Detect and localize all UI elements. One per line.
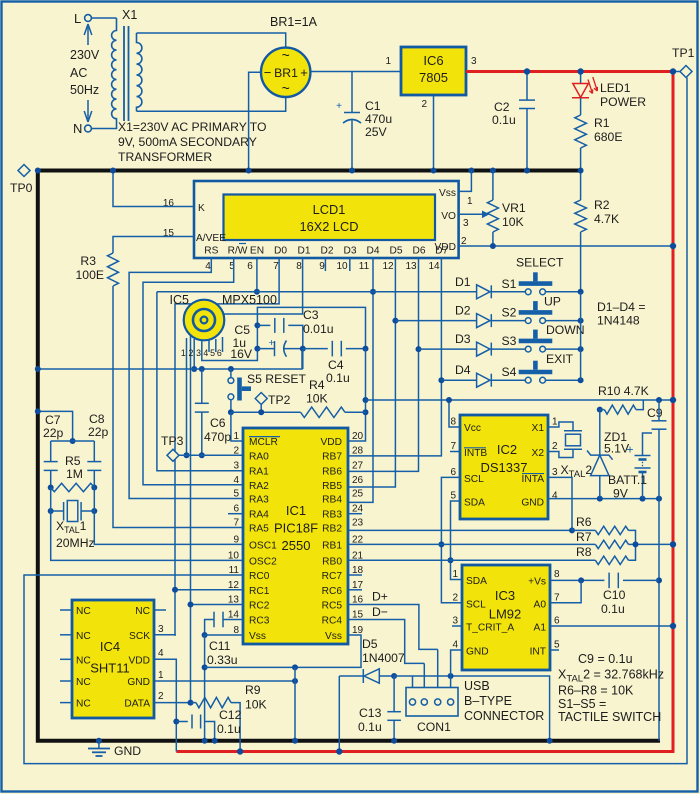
svg-text:S5 RESET: S5 RESET bbox=[247, 372, 306, 386]
svg-text:D1: D1 bbox=[297, 246, 310, 257]
svg-text:C1: C1 bbox=[365, 99, 381, 113]
svg-text:BR1=1A: BR1=1A bbox=[270, 15, 318, 29]
svg-text:3: 3 bbox=[463, 218, 469, 229]
svg-text:D3: D3 bbox=[455, 332, 471, 346]
svg-text:POWER: POWER bbox=[600, 95, 646, 109]
svg-text:2: 2 bbox=[233, 445, 239, 456]
svg-text:RB1: RB1 bbox=[322, 540, 342, 551]
svg-text:RC7: RC7 bbox=[322, 571, 343, 582]
ground symbol bbox=[96, 738, 102, 744]
MCLR reset row bbox=[231, 411, 301, 413]
wire IC2 SDA to bus bbox=[451, 501, 463, 580]
svg-text:C4: C4 bbox=[328, 358, 344, 372]
svg-text:SDA: SDA bbox=[464, 498, 485, 509]
bridge rectifier BR1 bbox=[261, 48, 310, 97]
svg-text:1: 1 bbox=[452, 569, 458, 580]
svg-text:D4: D4 bbox=[366, 246, 379, 257]
svg-text:4: 4 bbox=[233, 475, 239, 486]
svg-text:R6: R6 bbox=[576, 515, 592, 529]
USB pin stubs bbox=[412, 676, 414, 688]
svg-text:6: 6 bbox=[554, 616, 560, 627]
svg-text:2: 2 bbox=[421, 99, 427, 110]
svg-text:+: + bbox=[626, 443, 633, 457]
RC1 wire to D0 column bbox=[175, 589, 243, 591]
wire IC4 GND to ground drop bbox=[154, 680, 295, 682]
svg-text:22p: 22p bbox=[43, 426, 64, 440]
arrow down (neutral) bbox=[87, 100, 89, 119]
crystal XTAL2 32.768kHz bbox=[548, 422, 573, 431]
svg-text:D2: D2 bbox=[455, 304, 471, 318]
capacitor C13 0.1u bbox=[393, 676, 395, 712]
svg-text:RA1: RA1 bbox=[249, 467, 269, 478]
svg-text:7: 7 bbox=[450, 441, 456, 452]
svg-text:D7: D7 bbox=[435, 246, 448, 257]
wire BR1 plus to IC6 bbox=[310, 71, 401, 73]
svg-text:R/W: R/W bbox=[228, 246, 248, 257]
svg-text:DATA: DATA bbox=[124, 699, 150, 710]
svg-text:+: + bbox=[269, 338, 275, 349]
svg-text:4: 4 bbox=[452, 640, 458, 651]
svg-text:470p: 470p bbox=[204, 430, 231, 444]
svg-text:INT: INT bbox=[530, 647, 546, 658]
svg-text:+: + bbox=[300, 65, 308, 80]
wire D7(14) down to button row4 and RB7 bbox=[348, 258, 441, 456]
common button column to R2 bbox=[580, 292, 582, 380]
junction dots on top ground bus bbox=[246, 168, 252, 174]
svg-text:0.33u: 0.33u bbox=[207, 653, 238, 667]
svg-text:C2: C2 bbox=[494, 100, 510, 114]
svg-text:3: 3 bbox=[471, 56, 477, 67]
capacitor C4 0.1u bbox=[303, 348, 328, 350]
svg-text:BATT.1: BATT.1 bbox=[608, 473, 647, 487]
svg-text:A/VEE: A/VEE bbox=[196, 233, 226, 244]
svg-text:D−: D− bbox=[372, 605, 388, 619]
svg-text:R6–R8 = 10K: R6–R8 = 10K bbox=[558, 684, 634, 698]
red +5V rail (top) bbox=[466, 70, 673, 73]
svg-text:LED1: LED1 bbox=[600, 81, 631, 95]
PIC RA4 stub bbox=[228, 513, 243, 515]
svg-text:X2: X2 bbox=[532, 448, 545, 459]
svg-text:R8: R8 bbox=[576, 545, 592, 559]
svg-text:4: 4 bbox=[203, 348, 208, 358]
svg-text:B–TYPE: B–TYPE bbox=[464, 694, 512, 708]
test point TP2 bbox=[255, 393, 267, 405]
svg-text:S1: S1 bbox=[502, 277, 517, 291]
svg-text:IC2: IC2 bbox=[497, 442, 517, 457]
svg-text:SCL: SCL bbox=[466, 599, 486, 610]
svg-text:IC1: IC1 bbox=[286, 503, 306, 518]
ground row under sensor bbox=[38, 349, 302, 369]
wire button row1 down to RA1 bbox=[157, 292, 243, 471]
svg-text:RC2: RC2 bbox=[249, 601, 270, 612]
svg-text:D3: D3 bbox=[343, 246, 356, 257]
svg-text:A0: A0 bbox=[534, 599, 547, 610]
IC4 NC right stub bbox=[154, 609, 166, 611]
RC2 wire to D1 column bbox=[191, 604, 244, 606]
node from ground bus to C7/C8 bbox=[38, 411, 73, 441]
svg-text:MPX5100: MPX5100 bbox=[222, 293, 277, 307]
wire leg2 to ground row bbox=[193, 339, 195, 369]
svg-text:USB: USB bbox=[464, 679, 490, 693]
resistor R4 10K bbox=[301, 407, 345, 417]
svg-text:0.1u: 0.1u bbox=[492, 113, 516, 127]
IC2 GND / backup ground line bbox=[547, 498, 549, 500]
svg-text:TP2: TP2 bbox=[268, 393, 291, 407]
wire IC3 GND to USB pin4 bbox=[451, 650, 462, 676]
svg-text:14: 14 bbox=[428, 261, 440, 272]
svg-text:2: 2 bbox=[189, 348, 194, 358]
capacitor C3 0.01u bbox=[257, 324, 270, 326]
svg-text:2: 2 bbox=[552, 441, 558, 452]
resistor R2 4.7K bbox=[580, 171, 582, 201]
svg-text:Vss: Vss bbox=[249, 631, 266, 642]
svg-text:0.1u: 0.1u bbox=[601, 602, 625, 616]
svg-text:2: 2 bbox=[452, 592, 458, 603]
svg-text:0.1u: 0.1u bbox=[358, 720, 382, 734]
wire leg3 to C5 left node bbox=[202, 340, 258, 361]
svg-text:NC: NC bbox=[76, 631, 91, 642]
svg-text:16X2 LCD: 16X2 LCD bbox=[299, 219, 358, 234]
svg-text:26: 26 bbox=[352, 475, 364, 486]
svg-text:1: 1 bbox=[181, 348, 186, 358]
svg-text:RA5: RA5 bbox=[249, 524, 269, 535]
svg-text:C13: C13 bbox=[359, 706, 382, 720]
junction dots on +5V top rail bbox=[524, 68, 530, 74]
wire BR1 minus to ground bus bbox=[249, 72, 261, 170]
svg-text:0.01u: 0.01u bbox=[303, 322, 334, 336]
svg-text:3: 3 bbox=[452, 616, 458, 627]
wire IC2 SCL to bus bbox=[441, 477, 462, 602]
svg-text:INTA: INTA bbox=[522, 474, 545, 485]
svg-text:4: 4 bbox=[158, 648, 164, 659]
svg-text:2: 2 bbox=[158, 691, 164, 702]
svg-text:Vss: Vss bbox=[325, 631, 342, 642]
humidity sensor IC4 SHT11 bbox=[72, 600, 154, 718]
svg-text:D1: D1 bbox=[455, 275, 471, 289]
VBUS line to IC3 ground corner bbox=[391, 673, 397, 679]
svg-text:VR1: VR1 bbox=[502, 201, 526, 215]
svg-text:R2: R2 bbox=[594, 198, 610, 212]
+5V VDD line from LCD pin2 to red rail bbox=[459, 245, 673, 247]
svg-text:470u: 470u bbox=[365, 112, 392, 126]
svg-text:7: 7 bbox=[273, 261, 279, 272]
wire D5 to +5V red line bbox=[338, 676, 340, 752]
svg-text:RA0: RA0 bbox=[249, 451, 269, 462]
red +5V rail bottom bbox=[176, 750, 674, 753]
svg-text:3: 3 bbox=[196, 348, 201, 358]
wire EN(6) joins button row 1 bbox=[256, 258, 258, 292]
svg-text:R1: R1 bbox=[594, 116, 610, 130]
svg-text:15: 15 bbox=[163, 228, 175, 239]
svg-text:CON1: CON1 bbox=[417, 720, 451, 734]
svg-text:L: L bbox=[74, 11, 81, 26]
svg-text:4: 4 bbox=[552, 491, 558, 502]
wire K to ground bus bbox=[113, 171, 194, 207]
svg-text:1: 1 bbox=[552, 417, 558, 428]
svg-text:IC6: IC6 bbox=[423, 53, 443, 68]
svg-text:RB2: RB2 bbox=[322, 524, 342, 535]
LCD1 screen bbox=[224, 195, 436, 241]
svg-text:C11: C11 bbox=[209, 639, 231, 653]
svg-text:8: 8 bbox=[450, 417, 456, 428]
svg-text:3: 3 bbox=[158, 624, 164, 635]
svg-text:RB0: RB0 bbox=[322, 556, 342, 567]
IC3 INT stub bbox=[550, 649, 559, 651]
svg-text:8: 8 bbox=[554, 569, 560, 580]
svg-text:230V: 230V bbox=[70, 48, 100, 62]
svg-text:5: 5 bbox=[450, 491, 456, 502]
svg-text:D2: D2 bbox=[320, 246, 333, 257]
wire IC4 VDD to +5V red line bbox=[154, 659, 176, 751]
svg-text:NC: NC bbox=[76, 655, 91, 666]
svg-text:SELECT: SELECT bbox=[516, 255, 564, 269]
+5V line to red rail bbox=[366, 399, 674, 401]
svg-text:10: 10 bbox=[228, 550, 240, 561]
svg-text:1M: 1M bbox=[66, 467, 83, 481]
svg-text:16: 16 bbox=[163, 198, 175, 209]
svg-text:C9 = 0.1u: C9 = 0.1u bbox=[578, 652, 633, 666]
svg-text:R7: R7 bbox=[576, 530, 592, 544]
svg-text:R5: R5 bbox=[65, 454, 81, 468]
switch S5 RESET bbox=[230, 369, 232, 378]
svg-text:EN: EN bbox=[250, 246, 264, 257]
svg-text:20: 20 bbox=[352, 431, 364, 442]
svg-text:0.1u: 0.1u bbox=[326, 371, 350, 385]
svg-text:TRANSFORMER: TRANSFORMER bbox=[118, 150, 212, 164]
resistor R9 10K bbox=[191, 702, 197, 704]
svg-text:C8: C8 bbox=[89, 412, 105, 426]
svg-text:5: 5 bbox=[233, 489, 239, 500]
svg-text:25: 25 bbox=[352, 489, 364, 500]
RB0 wire (SDA net) bbox=[348, 559, 451, 561]
wire IC6 pin2 to ground bus bbox=[433, 95, 435, 171]
T_CRIT_A stub bbox=[452, 625, 462, 627]
wire XTAL1/C7 to OSC2 bbox=[51, 511, 243, 560]
svg-text:NC: NC bbox=[76, 606, 91, 617]
svg-text:DS1337: DS1337 bbox=[481, 460, 528, 475]
wire leg1 (Vout) to RA0 row bbox=[186, 338, 188, 455]
stub D3(10) bbox=[349, 258, 351, 271]
svg-text:R9: R9 bbox=[245, 683, 261, 697]
svg-text:K: K bbox=[198, 203, 205, 214]
svg-text:RB7: RB7 bbox=[322, 451, 342, 462]
svg-text:5: 5 bbox=[210, 348, 215, 358]
svg-text:CONNECTOR: CONNECTOR bbox=[464, 709, 544, 723]
svg-text:6: 6 bbox=[217, 348, 222, 358]
svg-text:27: 27 bbox=[352, 461, 364, 472]
svg-text:TP1: TP1 bbox=[672, 46, 695, 60]
wire IC3 A0 to +Vs line bbox=[550, 580, 581, 602]
svg-text:RA4: RA4 bbox=[249, 510, 269, 521]
wire to MCLR pin1 bbox=[231, 412, 243, 441]
svg-text:LM92: LM92 bbox=[489, 607, 522, 622]
svg-text:6: 6 bbox=[247, 261, 253, 272]
svg-text:680E: 680E bbox=[594, 130, 622, 144]
resistor R1 680E bbox=[580, 98, 582, 115]
svg-text:D1–D4 =: D1–D4 = bbox=[597, 300, 645, 314]
test point TP0 bbox=[18, 165, 30, 177]
svg-text:RC6: RC6 bbox=[322, 586, 343, 597]
svg-text:VO: VO bbox=[441, 211, 456, 222]
svg-text:7805: 7805 bbox=[419, 70, 448, 85]
svg-text:Vcc: Vcc bbox=[464, 423, 481, 434]
svg-text:GND: GND bbox=[127, 677, 150, 688]
svg-text:50Hz: 50Hz bbox=[70, 83, 99, 97]
Vss pin8 wire down to ground bbox=[205, 635, 243, 741]
wire D1(8) down-left to RC2/DATA column bbox=[191, 258, 303, 703]
svg-text:16V: 16V bbox=[230, 347, 253, 361]
svg-text:TACTILE SWITCH: TACTILE SWITCH bbox=[558, 710, 661, 724]
svg-text:MCLR: MCLR bbox=[249, 437, 278, 448]
svg-text:11: 11 bbox=[359, 261, 370, 272]
diode D2 1N4148 bbox=[395, 320, 476, 322]
svg-text:12: 12 bbox=[382, 261, 394, 272]
svg-text:TP3: TP3 bbox=[161, 434, 184, 448]
svg-text:INTB: INTB bbox=[464, 448, 487, 459]
PIC RC7 stub bbox=[348, 574, 362, 576]
svg-text:9V, 500mA SECONDARY: 9V, 500mA SECONDARY bbox=[118, 135, 257, 149]
svg-text:1: 1 bbox=[233, 431, 239, 442]
svg-text:C5: C5 bbox=[234, 323, 250, 337]
svg-text:9V: 9V bbox=[613, 487, 629, 501]
svg-text:R4: R4 bbox=[309, 378, 325, 392]
svg-text:1: 1 bbox=[158, 670, 164, 681]
IC2 INTB stub bbox=[450, 451, 460, 453]
svg-text:11: 11 bbox=[229, 565, 240, 576]
capacitor C2 0.1u bbox=[526, 72, 528, 100]
svg-text:9: 9 bbox=[319, 261, 325, 272]
svg-text:R3: R3 bbox=[80, 254, 96, 268]
svg-text:1: 1 bbox=[467, 196, 473, 207]
+Vs line with C10 bbox=[550, 579, 604, 581]
wire LCD Vss to ground bus bbox=[459, 171, 472, 192]
svg-text:C9: C9 bbox=[647, 406, 663, 420]
svg-text:28: 28 bbox=[352, 445, 364, 456]
wire secondary top to BR1 bbox=[137, 33, 286, 48]
diode D3 1N4148 bbox=[419, 348, 477, 350]
svg-text:PIC18F: PIC18F bbox=[274, 521, 318, 536]
svg-text:25V: 25V bbox=[365, 125, 388, 139]
svg-text:R10 4.7K: R10 4.7K bbox=[598, 384, 649, 398]
RB1 wire (SCL net) bbox=[348, 543, 441, 545]
svg-text:IC4: IC4 bbox=[100, 639, 120, 654]
svg-text:D5: D5 bbox=[362, 637, 378, 651]
svg-text:+: + bbox=[336, 101, 342, 112]
arrow up (phase) bbox=[87, 27, 89, 45]
wire secondary bottom to BR1 bbox=[137, 97, 286, 111]
svg-text:1N4148: 1N4148 bbox=[597, 314, 640, 328]
svg-text:SCL: SCL bbox=[464, 474, 484, 485]
capacitor C1 470u electrolytic bbox=[351, 72, 353, 113]
svg-text:N: N bbox=[73, 121, 82, 136]
svg-text:NC: NC bbox=[76, 677, 91, 688]
svg-text:RA3: RA3 bbox=[249, 495, 269, 506]
wire D6(13) down to button row3 and RB6 bbox=[348, 258, 419, 471]
zener ZD1 5.1V bbox=[599, 410, 601, 456]
svg-text:2550: 2550 bbox=[282, 538, 311, 553]
svg-text:~: ~ bbox=[282, 80, 290, 96]
svg-text:C12: C12 bbox=[219, 708, 242, 722]
D- wire RC4 to USB pin2 bbox=[348, 620, 424, 664]
svg-text:C6: C6 bbox=[210, 416, 226, 430]
RTC IC2 DS1337 bbox=[460, 415, 548, 519]
overline on MCLR bbox=[249, 436, 280, 438]
svg-text:RC4: RC4 bbox=[322, 616, 343, 627]
wire C5/C3 node down to ground row bbox=[302, 349, 304, 369]
LED1 POWER bbox=[580, 72, 582, 84]
crystal XTAL1 20MHz bbox=[48, 508, 54, 514]
svg-text:X1: X1 bbox=[532, 423, 545, 434]
svg-text:5: 5 bbox=[554, 640, 560, 651]
svg-text:LCD1: LCD1 bbox=[313, 202, 346, 217]
svg-text:20MHz: 20MHz bbox=[56, 536, 95, 550]
svg-text:1N4007: 1N4007 bbox=[362, 651, 405, 665]
svg-text:RC1: RC1 bbox=[249, 586, 270, 597]
svg-text:10K: 10K bbox=[502, 215, 524, 229]
svg-text:RB6: RB6 bbox=[322, 467, 342, 478]
terminal N bbox=[91, 128, 112, 130]
svg-text:RS: RS bbox=[204, 246, 218, 257]
stub D2(9) bbox=[324, 258, 326, 271]
svg-text:3: 3 bbox=[552, 467, 558, 478]
wire D4(11) down to button row1 and RB4 bbox=[348, 258, 373, 502]
svg-text:−: − bbox=[264, 65, 272, 80]
svg-text:10K: 10K bbox=[245, 698, 267, 712]
svg-text:100E: 100E bbox=[76, 268, 104, 282]
svg-text:VDD: VDD bbox=[128, 655, 150, 666]
svg-text:T_CRIT_A: T_CRIT_A bbox=[466, 623, 514, 634]
svg-text:A1: A1 bbox=[534, 623, 547, 634]
svg-text:GND: GND bbox=[466, 647, 489, 658]
capacitor C12 0.1u bbox=[176, 721, 188, 723]
svg-text:X1=230V AC PRIMARY TO: X1=230V AC PRIMARY TO bbox=[118, 120, 266, 134]
svg-text:D0: D0 bbox=[274, 246, 287, 257]
wire SCK to D0/RC1 column bbox=[154, 634, 175, 637]
svg-text:RC3: RC3 bbox=[249, 616, 270, 627]
svg-text:D4: D4 bbox=[455, 363, 471, 377]
svg-text:DOWN: DOWN bbox=[546, 323, 585, 337]
terminal L bbox=[91, 17, 117, 19]
svg-text:22p: 22p bbox=[88, 425, 109, 439]
svg-text:4: 4 bbox=[205, 261, 211, 272]
supply line over sensor to C4 node bbox=[257, 307, 365, 349]
svg-text:RB4: RB4 bbox=[322, 495, 342, 506]
svg-text:RA2: RA2 bbox=[249, 481, 269, 492]
wire RS(4) to RA3 bbox=[129, 258, 243, 499]
svg-text:S3: S3 bbox=[502, 334, 517, 348]
svg-text:4.7K: 4.7K bbox=[594, 212, 619, 226]
svg-text:13: 13 bbox=[405, 261, 417, 272]
svg-text:Vss: Vss bbox=[439, 188, 456, 199]
svg-text:SCK: SCK bbox=[129, 631, 150, 642]
svg-text:D6: D6 bbox=[412, 246, 425, 257]
svg-text:RB5: RB5 bbox=[322, 481, 342, 492]
svg-text:C3: C3 bbox=[303, 308, 319, 322]
wire IC2 INTA down to R6 bbox=[548, 477, 572, 530]
USB B-type connector CON1 bbox=[406, 688, 458, 717]
PIC RB3 stub bbox=[348, 513, 362, 515]
svg-text:+Vs: +Vs bbox=[528, 577, 546, 588]
microcontroller IC1 PIC18F2550 bbox=[243, 428, 348, 644]
temperature sensor IC3 LM92 bbox=[462, 565, 550, 670]
svg-text:3: 3 bbox=[233, 461, 239, 472]
svg-text:RC5: RC5 bbox=[322, 601, 343, 612]
diode D4 1N4148 bbox=[441, 379, 476, 381]
regulator IC6 7805 bbox=[401, 47, 466, 95]
svg-text:SDA: SDA bbox=[466, 576, 487, 587]
svg-text:C10: C10 bbox=[603, 588, 626, 602]
svg-text:GND: GND bbox=[521, 498, 544, 509]
